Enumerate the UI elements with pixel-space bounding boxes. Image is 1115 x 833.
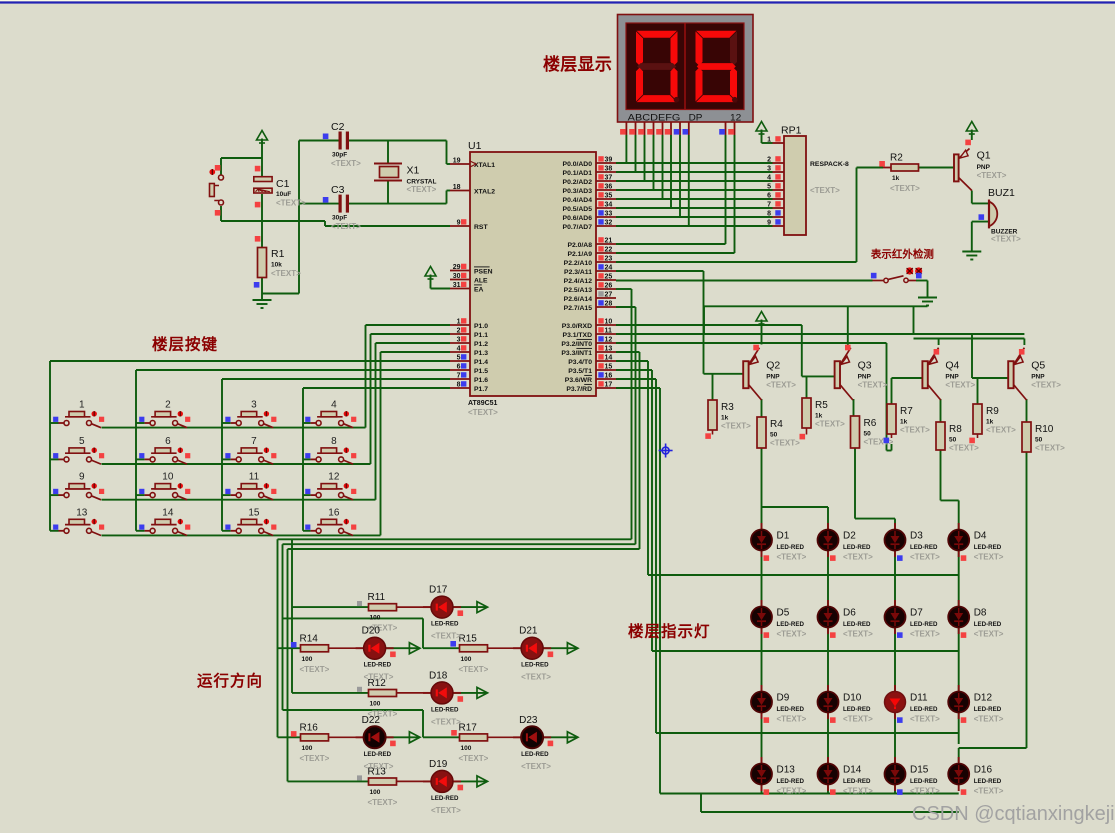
svg-text:LED-RED: LED-RED <box>843 778 871 785</box>
svg-text:LED-RED: LED-RED <box>364 662 392 669</box>
svg-text:<TEXT>: <TEXT> <box>945 381 975 390</box>
svg-text:P2.3/A11: P2.3/A11 <box>564 269 592 276</box>
svg-text:LED-RED: LED-RED <box>910 706 938 713</box>
svg-text:27: 27 <box>605 292 613 299</box>
svg-text:5: 5 <box>79 436 85 447</box>
svg-text:D8: D8 <box>974 608 987 619</box>
svg-text:X1: X1 <box>407 165 420 177</box>
svg-text:D22: D22 <box>362 715 381 726</box>
svg-text:<TEXT>: <TEXT> <box>900 426 930 435</box>
svg-text:<TEXT>: <TEXT> <box>843 787 873 796</box>
svg-text:D20: D20 <box>362 626 381 637</box>
svg-text:2: 2 <box>767 157 771 164</box>
svg-text:R7: R7 <box>900 406 913 417</box>
svg-text:6: 6 <box>457 364 461 371</box>
svg-text:U1: U1 <box>468 140 482 152</box>
svg-text:35: 35 <box>605 193 613 200</box>
svg-text:D18: D18 <box>429 670 448 681</box>
svg-text:9: 9 <box>457 220 461 227</box>
svg-text:<TEXT>: <TEXT> <box>910 553 940 562</box>
svg-text:14: 14 <box>605 355 613 362</box>
svg-text:P1.4: P1.4 <box>474 359 488 366</box>
svg-text:D16: D16 <box>974 765 993 776</box>
svg-text:<TEXT>: <TEXT> <box>843 715 873 724</box>
svg-text:PNP: PNP <box>977 164 991 171</box>
svg-text:C3: C3 <box>331 184 345 196</box>
svg-text:12: 12 <box>730 112 741 123</box>
svg-text:19: 19 <box>453 158 461 165</box>
svg-text:100: 100 <box>302 656 313 663</box>
svg-text:<TEXT>: <TEXT> <box>770 439 800 448</box>
svg-text:LED-RED: LED-RED <box>521 662 549 669</box>
svg-text:50: 50 <box>1035 437 1043 444</box>
svg-text:P0.1/AD1: P0.1/AD1 <box>563 170 593 177</box>
svg-text:Q4: Q4 <box>945 360 959 372</box>
svg-text:LED-RED: LED-RED <box>431 621 459 628</box>
svg-text:30: 30 <box>453 273 461 280</box>
svg-text:7: 7 <box>251 436 257 447</box>
svg-text:100: 100 <box>461 656 472 663</box>
svg-text:P3.1/TXD: P3.1/TXD <box>563 332 593 339</box>
svg-text:R6: R6 <box>864 418 877 429</box>
svg-text:楼层指示灯: 楼层指示灯 <box>628 622 711 641</box>
svg-text:10k: 10k <box>271 262 282 269</box>
svg-text:<TEXT>: <TEXT> <box>910 630 940 639</box>
svg-text:9: 9 <box>767 220 771 227</box>
svg-text:1: 1 <box>457 319 461 326</box>
svg-text:楼层按键: 楼层按键 <box>152 335 218 354</box>
svg-text:3: 3 <box>251 400 257 411</box>
svg-text:D5: D5 <box>777 608 790 619</box>
svg-text:2: 2 <box>457 328 461 335</box>
svg-text:1k: 1k <box>986 419 994 426</box>
svg-text:3: 3 <box>767 166 771 173</box>
svg-text:<TEXT>: <TEXT> <box>910 715 940 724</box>
svg-text:LED-RED: LED-RED <box>843 621 871 628</box>
svg-text:<TEXT>: <TEXT> <box>843 630 873 639</box>
svg-text:RP1: RP1 <box>781 125 802 137</box>
svg-text:4: 4 <box>457 346 461 353</box>
svg-text:R9: R9 <box>986 406 999 417</box>
svg-text:CSDN @cqtianxingkeji: CSDN @cqtianxingkeji <box>912 803 1115 825</box>
svg-text:R15: R15 <box>459 633 478 644</box>
svg-text:1: 1 <box>767 137 771 144</box>
svg-text:LED-RED: LED-RED <box>777 706 805 713</box>
svg-text:Q5: Q5 <box>1031 360 1045 372</box>
svg-text:D15: D15 <box>910 765 929 776</box>
svg-text:28: 28 <box>605 301 613 308</box>
svg-text:LED-RED: LED-RED <box>974 706 1002 713</box>
svg-text:100: 100 <box>302 745 313 752</box>
svg-text:R11: R11 <box>368 592 386 603</box>
svg-text:R4: R4 <box>770 419 783 430</box>
svg-text:P3.2/INT0: P3.2/INT0 <box>561 341 592 348</box>
svg-text:<TEXT>: <TEXT> <box>777 553 807 562</box>
svg-text:XTAL2: XTAL2 <box>474 188 495 195</box>
svg-text:<TEXT>: <TEXT> <box>368 798 398 807</box>
svg-text:P3.3/INT1: P3.3/INT1 <box>561 350 592 357</box>
svg-text:30pF: 30pF <box>332 215 347 222</box>
svg-text:P0.0/AD0: P0.0/AD0 <box>563 161 593 168</box>
svg-text:DP: DP <box>689 112 703 123</box>
svg-text:R5: R5 <box>815 400 828 411</box>
svg-text:9: 9 <box>79 472 85 483</box>
svg-text:100: 100 <box>370 789 381 796</box>
svg-text:Q2: Q2 <box>766 360 780 372</box>
svg-text:P3.6/WR: P3.6/WR <box>565 377 592 384</box>
svg-text:LED-RED: LED-RED <box>777 544 805 551</box>
svg-text:17: 17 <box>605 382 613 389</box>
svg-text:<TEXT>: <TEXT> <box>431 632 461 641</box>
svg-text:Q1: Q1 <box>977 150 991 162</box>
svg-text:<TEXT>: <TEXT> <box>468 408 498 417</box>
svg-text:LED-RED: LED-RED <box>974 621 1002 628</box>
svg-text:10: 10 <box>605 319 613 326</box>
svg-text:LED-RED: LED-RED <box>843 544 871 551</box>
svg-text:AT89C51: AT89C51 <box>468 400 498 407</box>
svg-text:1: 1 <box>79 400 85 411</box>
svg-text:LED-RED: LED-RED <box>364 751 392 758</box>
svg-text:P1.0: P1.0 <box>474 323 488 330</box>
svg-text:<TEXT>: <TEXT> <box>1031 381 1061 390</box>
svg-text:<TEXT>: <TEXT> <box>459 754 489 763</box>
svg-text:50: 50 <box>949 437 957 444</box>
svg-text:R3: R3 <box>721 402 734 413</box>
svg-text:29: 29 <box>453 264 461 271</box>
svg-text:BUZ1: BUZ1 <box>988 187 1015 199</box>
svg-text:7: 7 <box>767 202 771 209</box>
svg-text:ABCDEFG: ABCDEFG <box>628 112 681 123</box>
svg-text:LED-RED: LED-RED <box>843 706 871 713</box>
svg-text:1k: 1k <box>892 175 900 182</box>
svg-text:XTAL1: XTAL1 <box>474 162 495 169</box>
svg-text:13: 13 <box>605 346 613 353</box>
svg-text:<TEXT>: <TEXT> <box>974 630 1004 639</box>
svg-text:<TEXT>: <TEXT> <box>331 159 361 168</box>
svg-text:P2.2/A10: P2.2/A10 <box>564 260 593 267</box>
svg-text:P2.6/A14: P2.6/A14 <box>564 296 593 303</box>
svg-text:<TEXT>: <TEXT> <box>986 426 1016 435</box>
svg-text:<TEXT>: <TEXT> <box>974 787 1004 796</box>
svg-text:R17: R17 <box>459 722 478 733</box>
svg-text:D7: D7 <box>910 608 923 619</box>
svg-text:<TEXT>: <TEXT> <box>431 717 461 726</box>
svg-text:PNP: PNP <box>766 374 780 381</box>
svg-text:10uF: 10uF <box>276 191 291 198</box>
svg-text:50: 50 <box>864 431 872 438</box>
svg-text:<TEXT>: <TEXT> <box>300 665 330 674</box>
svg-text:4: 4 <box>767 175 771 182</box>
svg-text:LED-RED: LED-RED <box>777 621 805 628</box>
svg-text:1k: 1k <box>900 419 908 426</box>
svg-text:16: 16 <box>328 507 340 518</box>
svg-text:LED-RED: LED-RED <box>521 751 549 758</box>
svg-text:15: 15 <box>248 507 260 518</box>
svg-text:15: 15 <box>605 364 613 371</box>
svg-text:23: 23 <box>605 256 613 263</box>
svg-text:<TEXT>: <TEXT> <box>974 715 1004 724</box>
svg-text:100: 100 <box>370 615 381 622</box>
svg-text:运行方向: 运行方向 <box>197 671 263 690</box>
svg-text:P3.5/T1: P3.5/T1 <box>568 368 592 375</box>
svg-text:<TEXT>: <TEXT> <box>815 420 845 429</box>
svg-text:<TEXT>: <TEXT> <box>991 235 1021 244</box>
svg-text:<TEXT>: <TEXT> <box>777 787 807 796</box>
svg-text:5: 5 <box>767 184 771 191</box>
svg-text:25: 25 <box>605 274 613 281</box>
svg-text:33: 33 <box>605 211 613 218</box>
svg-text:P3.7/RD: P3.7/RD <box>566 386 592 393</box>
svg-text:PNP: PNP <box>1031 374 1045 381</box>
svg-text:PNP: PNP <box>858 374 872 381</box>
svg-text:D17: D17 <box>429 585 448 596</box>
svg-text:8: 8 <box>457 382 461 389</box>
svg-text:C1: C1 <box>276 178 290 190</box>
svg-text:38: 38 <box>605 166 613 173</box>
svg-text:8: 8 <box>331 436 337 447</box>
svg-text:<TEXT>: <TEXT> <box>858 381 888 390</box>
svg-text:P0.7/AD7: P0.7/AD7 <box>563 224 593 231</box>
svg-text:LED-RED: LED-RED <box>974 544 1002 551</box>
svg-text:P1.3: P1.3 <box>474 350 488 357</box>
svg-text:<TEXT>: <TEXT> <box>910 787 940 796</box>
svg-text:13: 13 <box>76 507 88 518</box>
svg-text:7: 7 <box>457 373 461 380</box>
svg-text:D11: D11 <box>910 693 928 704</box>
svg-text:<TEXT>: <TEXT> <box>407 185 437 194</box>
svg-text:16: 16 <box>605 373 613 380</box>
svg-text:RESPACK-8: RESPACK-8 <box>810 161 849 168</box>
svg-text:D13: D13 <box>777 765 796 776</box>
svg-text:100: 100 <box>370 701 381 708</box>
svg-text:表示红外检测: 表示红外检测 <box>870 248 934 261</box>
svg-text:12: 12 <box>328 472 340 483</box>
svg-text:24: 24 <box>605 265 613 272</box>
svg-text:<TEXT>: <TEXT> <box>459 665 489 674</box>
svg-text:31: 31 <box>453 282 461 289</box>
svg-text:D9: D9 <box>777 693 790 704</box>
svg-text:36: 36 <box>605 184 613 191</box>
svg-text:6: 6 <box>165 436 171 447</box>
svg-text:<TEXT>: <TEXT> <box>777 715 807 724</box>
svg-text:LED-RED: LED-RED <box>431 795 459 802</box>
svg-text:30pF: 30pF <box>332 152 347 159</box>
svg-text:<TEXT>: <TEXT> <box>777 630 807 639</box>
svg-text:<TEXT>: <TEXT> <box>977 171 1007 180</box>
svg-text:D2: D2 <box>843 531 856 542</box>
svg-text:12: 12 <box>605 337 613 344</box>
svg-text:<TEXT>: <TEXT> <box>1035 444 1065 453</box>
svg-text:P1.2: P1.2 <box>474 341 488 348</box>
svg-text:D3: D3 <box>910 531 923 542</box>
svg-text:D23: D23 <box>519 715 538 726</box>
svg-text:<TEXT>: <TEXT> <box>271 269 301 278</box>
svg-text:P2.1/A9: P2.1/A9 <box>567 251 592 258</box>
svg-text:Q3: Q3 <box>858 360 872 372</box>
svg-text:P1.5: P1.5 <box>474 368 488 375</box>
svg-text:10: 10 <box>162 472 174 483</box>
svg-text:PNP: PNP <box>945 374 959 381</box>
svg-text:100: 100 <box>461 745 472 752</box>
svg-text:P1.1: P1.1 <box>474 332 488 339</box>
svg-text:EA: EA <box>474 286 484 293</box>
svg-text:<TEXT>: <TEXT> <box>843 553 873 562</box>
svg-text:<TEXT>: <TEXT> <box>521 762 551 771</box>
svg-text:37: 37 <box>605 175 613 182</box>
svg-text:P3.0/RXD: P3.0/RXD <box>562 323 592 330</box>
svg-text:楼层显示: 楼层显示 <box>543 54 612 74</box>
svg-text:<TEXT>: <TEXT> <box>810 186 840 195</box>
svg-text:P0.4/AD4: P0.4/AD4 <box>563 197 593 204</box>
svg-text:LED-RED: LED-RED <box>910 544 938 551</box>
svg-text:P0.2/AD2: P0.2/AD2 <box>563 179 593 186</box>
svg-text:PSEN: PSEN <box>474 268 493 275</box>
svg-text:11: 11 <box>249 472 260 483</box>
svg-text:LED-RED: LED-RED <box>910 778 938 785</box>
svg-text:<TEXT>: <TEXT> <box>521 673 551 682</box>
svg-text:26: 26 <box>605 283 613 290</box>
svg-text:D1: D1 <box>777 531 790 542</box>
svg-text:R10: R10 <box>1035 424 1054 435</box>
svg-text:P2.4/A12: P2.4/A12 <box>564 278 593 285</box>
svg-text:P1.6: P1.6 <box>474 377 488 384</box>
svg-text:<TEXT>: <TEXT> <box>890 184 920 193</box>
svg-text:P3.4/T0: P3.4/T0 <box>568 359 592 366</box>
svg-text:D12: D12 <box>974 693 993 704</box>
svg-text:D21: D21 <box>519 626 538 637</box>
svg-text:R14: R14 <box>300 633 319 644</box>
svg-text:32: 32 <box>605 220 613 227</box>
svg-text:1k: 1k <box>815 413 823 420</box>
svg-text:<TEXT>: <TEXT> <box>766 381 796 390</box>
svg-text:<TEXT>: <TEXT> <box>300 754 330 763</box>
svg-text:8: 8 <box>767 211 771 218</box>
svg-text:ALE: ALE <box>474 277 488 284</box>
svg-text:1k: 1k <box>721 415 729 422</box>
svg-text:<TEXT>: <TEXT> <box>949 444 979 453</box>
svg-text:R16: R16 <box>300 722 319 733</box>
svg-text:C2: C2 <box>331 121 345 133</box>
svg-text:P2.5/A13: P2.5/A13 <box>564 287 593 294</box>
svg-text:LED-RED: LED-RED <box>910 621 938 628</box>
svg-text:<TEXT>: <TEXT> <box>364 673 394 682</box>
svg-text:R8: R8 <box>949 424 962 435</box>
svg-text:22: 22 <box>605 247 613 254</box>
svg-text:P2.7/A15: P2.7/A15 <box>564 305 593 312</box>
svg-text:<TEXT>: <TEXT> <box>276 199 306 208</box>
svg-text:P0.5/AD5: P0.5/AD5 <box>563 206 593 213</box>
svg-text:50: 50 <box>770 432 778 439</box>
svg-text:<TEXT>: <TEXT> <box>331 222 361 231</box>
svg-text:D19: D19 <box>429 759 448 770</box>
svg-text:6: 6 <box>767 193 771 200</box>
svg-text:4: 4 <box>331 400 337 411</box>
svg-text:14: 14 <box>162 507 174 518</box>
svg-text:3: 3 <box>457 337 461 344</box>
svg-text:P1.7: P1.7 <box>474 386 488 393</box>
svg-text:D6: D6 <box>843 608 856 619</box>
svg-text:LED-RED: LED-RED <box>777 778 805 785</box>
svg-text:<TEXT>: <TEXT> <box>721 422 751 431</box>
svg-text:<TEXT>: <TEXT> <box>431 806 461 815</box>
svg-text:LED-RED: LED-RED <box>974 778 1002 785</box>
svg-text:18: 18 <box>453 184 461 191</box>
svg-text:2: 2 <box>165 400 171 411</box>
svg-text:R1: R1 <box>271 248 285 260</box>
svg-text:RST: RST <box>474 224 488 231</box>
svg-text:D10: D10 <box>843 693 862 704</box>
svg-text:5: 5 <box>457 355 461 362</box>
svg-text:D4: D4 <box>974 531 987 542</box>
svg-text:P0.6/AD6: P0.6/AD6 <box>563 215 593 222</box>
svg-text:P0.3/AD3: P0.3/AD3 <box>563 188 593 195</box>
svg-text:LED-RED: LED-RED <box>431 706 459 713</box>
svg-text:<TEXT>: <TEXT> <box>364 762 394 771</box>
svg-text:D14: D14 <box>843 765 862 776</box>
svg-text:34: 34 <box>605 202 613 209</box>
svg-text:11: 11 <box>605 328 613 335</box>
svg-text:21: 21 <box>605 238 613 245</box>
svg-text:R2: R2 <box>890 153 903 164</box>
svg-text:<TEXT>: <TEXT> <box>974 553 1004 562</box>
svg-text:39: 39 <box>605 157 613 164</box>
svg-text:P2.0/A8: P2.0/A8 <box>567 242 592 249</box>
